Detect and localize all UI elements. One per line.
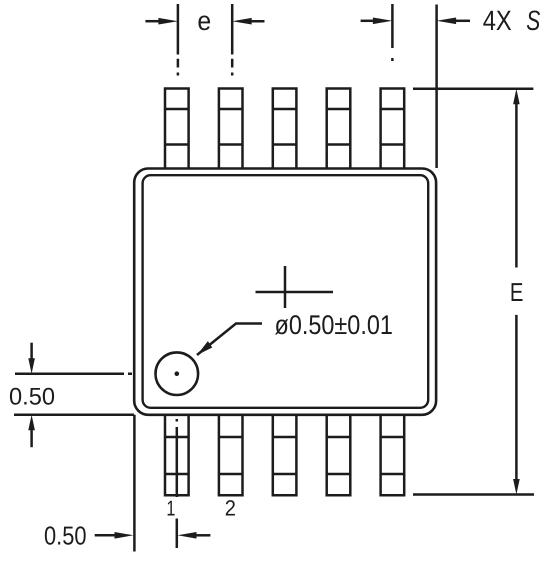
- svg-text:0.50: 0.50: [44, 521, 87, 551]
- svg-text:e: e: [197, 6, 211, 36]
- svg-text:0.50: 0.50: [9, 383, 55, 410]
- svg-text:S: S: [526, 5, 540, 36]
- svg-text:E: E: [510, 277, 524, 307]
- svg-text:ø0.50±0.01: ø0.50±0.01: [275, 310, 393, 340]
- svg-text:4X: 4X: [483, 5, 512, 36]
- svg-text:1: 1: [166, 497, 175, 521]
- svg-text:2: 2: [225, 496, 236, 521]
